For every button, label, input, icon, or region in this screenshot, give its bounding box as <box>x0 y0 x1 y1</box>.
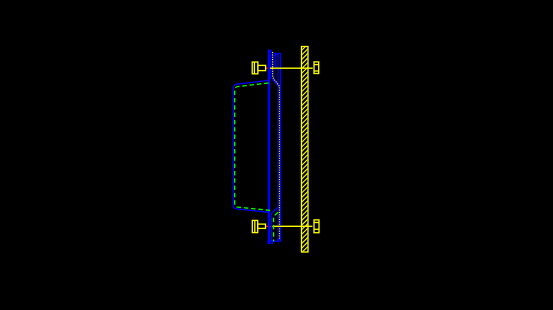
bar A top cap <box>268 49 272 51</box>
rail bottom closure <box>271 240 281 242</box>
top clip stub b <box>274 54 276 56</box>
top jog diagonal 2 <box>274 79 281 87</box>
rail top bar <box>277 52 281 54</box>
top clip vertical v2 <box>273 52 275 79</box>
top clip vertical v1 <box>270 50 272 77</box>
rail left leg B1 <box>277 53 279 241</box>
rail bottom hook <box>278 239 281 241</box>
red stub upper bolt <box>266 67 269 69</box>
top washer vertical <box>275 54 277 67</box>
upper bolt axis line <box>270 67 313 69</box>
panel main bar <box>233 50 281 243</box>
bolt centre hidden line top (yellow dotted) <box>273 52 280 239</box>
upper nut line a <box>314 64 319 66</box>
top clip stub a <box>274 52 276 54</box>
wall section <box>302 47 309 253</box>
top washer bar <box>275 53 277 55</box>
lower bolt shaft <box>258 224 266 228</box>
upper bolt shaft <box>258 65 266 70</box>
bottom clip hidden diagonal (green dashed) <box>274 212 279 241</box>
lower bolt head <box>252 220 257 232</box>
bottom jog diagonal <box>272 207 278 213</box>
bar A bottom foot <box>268 241 272 244</box>
sign body outline (solid) <box>233 80 268 212</box>
top jog diagonal 1 <box>271 78 278 86</box>
bottom clip vertical <box>271 213 273 241</box>
upper bolt head face line <box>253 62 255 74</box>
sign body hidden line (green dashed) <box>235 83 271 210</box>
lower nut line a <box>314 222 319 224</box>
lower bolt head face line <box>254 220 256 232</box>
wall hatch <box>300 42 310 259</box>
lower bolt axis line <box>272 225 312 227</box>
rail right leg B2 <box>280 53 282 241</box>
lower nut <box>314 220 319 233</box>
upper nut line b <box>314 70 319 72</box>
bar A vertical <box>268 50 270 243</box>
upper bolt head <box>252 62 258 74</box>
lower nut line b <box>314 228 319 230</box>
upper nut <box>314 62 319 74</box>
red stub lower bolt <box>265 225 271 227</box>
